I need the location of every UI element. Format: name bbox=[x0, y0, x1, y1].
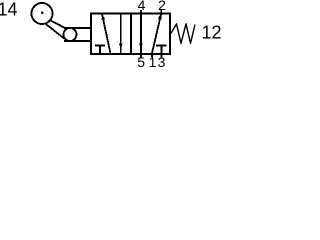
lever arm lower line bbox=[45, 24, 64, 39]
lever arm upper line bbox=[49, 20, 67, 30]
return spring (zigzag) bbox=[171, 24, 195, 44]
mount line bottom (lever bracket to valve body) bbox=[64, 40, 91, 42]
position divider line bbox=[130, 14, 132, 54]
valve body outline (two-position 5/2 valve) bbox=[91, 14, 170, 54]
svg-text:14: 14 bbox=[0, 0, 18, 20]
right position: flow path 4 to 5 (vertical, arrow down) bbox=[140, 14, 142, 54]
svg-text:5: 5 bbox=[137, 54, 145, 67]
pivot circle of roller lever bbox=[64, 28, 77, 41]
left position: flow path 1 to 4 (diagonal, arrow up) bbox=[102, 14, 111, 54]
port stub 1 (bottom) bbox=[151, 54, 153, 57]
svg-text:12: 12 bbox=[202, 23, 222, 43]
svg-text:1: 1 bbox=[149, 54, 157, 67]
svg-text:2: 2 bbox=[158, 0, 166, 13]
svg-text:3: 3 bbox=[158, 54, 166, 67]
left position: blocked port 5 (T symbol) bbox=[99, 46, 101, 54]
port stub 3 (bottom) bbox=[160, 54, 162, 57]
port stub 4 (top) bbox=[140, 10, 142, 13]
roller axle dot bbox=[41, 11, 44, 14]
svg-text:4: 4 bbox=[138, 0, 146, 13]
right position: flow path 1 to 2 (diagonal, arrow up) bbox=[152, 14, 161, 54]
left position: flow path 2 to 3 (vertical, arrow down) bbox=[120, 14, 122, 54]
mount line top (lever bracket to valve body) bbox=[64, 27, 91, 29]
roller circle bbox=[32, 3, 53, 24]
right position: blocked port 3 (T symbol) bbox=[160, 46, 162, 54]
port stub 5 (bottom) bbox=[140, 54, 142, 57]
port stub 2 (top) bbox=[160, 10, 162, 13]
